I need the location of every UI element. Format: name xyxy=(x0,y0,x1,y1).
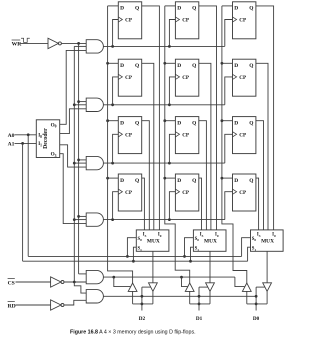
svg-text:I0: I0 xyxy=(158,232,162,237)
junction word line row 3 col 1 riser xyxy=(111,162,114,165)
svg-text:D: D xyxy=(234,178,238,184)
junction WR' to AND row 2 xyxy=(77,100,80,103)
junction word line row 4 col 1 riser xyxy=(111,218,114,221)
caption Figure 16.8 xyxy=(70,330,196,336)
wire WR' stub AND row 4 xyxy=(79,215,87,217)
wire D input stub row 2 col 3 xyxy=(222,62,233,64)
svg-text:CP: CP xyxy=(182,132,190,138)
svg-text:I0: I0 xyxy=(215,232,219,237)
input label RD (active low) with overline xyxy=(8,302,16,310)
wire MUX2 S1 from S1 rail xyxy=(191,247,194,261)
wire D2 data line xyxy=(133,303,153,305)
junction S0 rail MUX2 xyxy=(183,255,186,258)
junction word line row 3 col 2 riser xyxy=(168,162,171,165)
svg-text:CP: CP xyxy=(182,75,190,81)
junction S0 rail MUX1 xyxy=(126,255,129,258)
svg-text:CS: CS xyxy=(8,280,15,286)
AND gate G5 (write enable = WR'·CS') xyxy=(86,270,103,283)
wire CS to inverter xyxy=(16,281,51,283)
D flip-flop U10 row 4 col 1 (D, Q, CP pins) xyxy=(118,174,142,211)
wire WR' stub AND row 2 xyxy=(79,101,87,103)
wire CS' stub AND row 4 xyxy=(74,219,86,221)
junction write enable tap D1 xyxy=(180,276,183,279)
wire MUX1 S1 from S1 rail xyxy=(133,247,136,261)
wire D0 data line xyxy=(247,303,267,305)
junction bit line col 2 row 4 xyxy=(163,177,166,180)
tri-state read buffer B4 (output D2) xyxy=(149,283,158,292)
junction D1 data node xyxy=(198,303,201,306)
wire write enable to buffer B1 xyxy=(114,277,131,287)
wire CP riser row 3 col 3 xyxy=(225,134,233,163)
wire D input stub row 3 col 3 xyxy=(222,120,233,122)
svg-text:I3: I3 xyxy=(257,232,261,237)
wire Q output row 3 col 1 to MUX I2 xyxy=(142,121,150,230)
svg-text:Q: Q xyxy=(249,120,253,126)
wire A0 vertical to S0 rail xyxy=(27,135,29,257)
wire MUX3 S1 from S1 rail xyxy=(248,247,251,261)
wire decoder O2 to AND row 3 xyxy=(60,145,86,167)
wire read buffer B5 output drop xyxy=(209,291,211,304)
wire CP riser row 4 col 1 xyxy=(113,192,119,220)
svg-text:I3: I3 xyxy=(200,232,204,237)
wire CS' stub AND row 2 xyxy=(74,104,86,106)
svg-text:D0: D0 xyxy=(253,316,260,322)
svg-text:I0: I0 xyxy=(272,232,276,237)
wire D1 data line xyxy=(190,303,210,305)
junction read enable tap D0 xyxy=(255,295,258,298)
D flip-flop U5 row 2 col 2 (D, Q, CP pins) xyxy=(175,59,199,96)
junction S1 rail MUX1 xyxy=(132,260,135,263)
svg-text:Q: Q xyxy=(135,178,139,184)
wire read enable to buffer B5 xyxy=(199,286,208,288)
inverter U4 on RD line xyxy=(51,300,64,310)
wire D input stub row 3 col 1 xyxy=(108,120,119,122)
svg-text:CP: CP xyxy=(239,18,247,24)
wire decoder O0 to AND row 1 xyxy=(60,50,86,124)
D flip-flop U3 row 1 col 3 (D, Q, CP pins) xyxy=(232,2,256,39)
svg-text:D: D xyxy=(234,63,238,69)
svg-text:D: D xyxy=(177,6,181,12)
junction bit line col 2 row 3 xyxy=(163,119,166,122)
D flip-flop U6 row 2 col 3 (D, Q, CP pins) xyxy=(232,59,256,96)
svg-text:CP: CP xyxy=(239,132,247,138)
D flip-flop U7 row 3 col 1 (D, Q, CP pins) xyxy=(118,117,142,154)
svg-text:RD: RD xyxy=(8,303,16,309)
svg-text:Q: Q xyxy=(249,6,253,12)
wire bit line column 2 (D1) xyxy=(165,6,190,283)
wire CP riser row 4 col 2 xyxy=(169,192,175,220)
svg-text:CP: CP xyxy=(125,18,133,24)
wire D input stub row 4 col 2 xyxy=(165,177,176,179)
svg-text:I0: I0 xyxy=(38,134,42,139)
AND gate G3 (word line row 3) xyxy=(86,156,103,169)
D flip-flop U11 row 4 col 2 (D, Q, CP pins) xyxy=(175,174,199,211)
wire CP riser row 1 col 1 xyxy=(113,20,119,47)
svg-text:S0: S0 xyxy=(138,237,143,242)
inverter U3 on CS line xyxy=(51,277,64,287)
wire MUX1 output to tri-state buffer xyxy=(152,251,154,282)
multiplexer MUX2 (4-to-1) xyxy=(193,230,226,252)
AND gate G1 (word line row 1) xyxy=(86,40,103,53)
wire WR' vertical bus xyxy=(79,43,87,274)
wire A0 to decoder I0 xyxy=(15,134,37,136)
junction read enable tap D1 xyxy=(198,295,201,298)
svg-text:D: D xyxy=(120,6,124,12)
svg-text:S1: S1 xyxy=(195,247,200,252)
wire write buffer B1 input drop xyxy=(132,291,134,304)
svg-text:Q: Q xyxy=(192,178,196,184)
svg-text:Q: Q xyxy=(192,63,196,69)
wire CS' stub AND row 3 xyxy=(74,162,86,164)
svg-text:A0: A0 xyxy=(8,133,15,139)
svg-text:CP: CP xyxy=(239,75,247,81)
wire S0 select rail xyxy=(28,255,241,257)
svg-text:D: D xyxy=(177,178,181,184)
junction CS' to AND row 3 xyxy=(73,162,76,165)
inverter U1 on WR line xyxy=(48,38,61,48)
junction CS' branch xyxy=(73,281,76,284)
input label A0 xyxy=(8,133,15,139)
wire Q output row 4 col 3 to MUX I3 xyxy=(256,178,259,230)
svg-text:Q: Q xyxy=(192,6,196,12)
AND gate G6 (read enable = CS'·RD') xyxy=(86,290,103,303)
wire write enable rail xyxy=(103,276,235,278)
wire MUX3 S0 from S0 rail xyxy=(242,238,251,257)
junction D2 data node xyxy=(141,303,144,306)
svg-text:D: D xyxy=(177,63,181,69)
junction CS' to AND row 2 xyxy=(73,103,76,106)
svg-text:CP: CP xyxy=(125,75,133,81)
tri-state write buffer B3 (input D0) xyxy=(242,283,251,291)
wire D0 pad vertical xyxy=(255,287,257,310)
wire write enable to buffer B2 xyxy=(182,277,188,287)
wire bit line column 3 (D0) xyxy=(222,6,247,283)
wire D input stub row 1 col 3 xyxy=(222,5,233,7)
tri-state read buffer B5 (output D1) xyxy=(206,283,215,292)
decoder U2 (2-to-4) xyxy=(36,120,59,158)
multiplexer MUX1 (4-to-1) xyxy=(136,230,169,252)
wire read enable rail xyxy=(103,295,256,297)
junction CS' to AND row 4 xyxy=(73,218,76,221)
svg-text:Q: Q xyxy=(135,120,139,126)
svg-text:CP: CP xyxy=(182,18,190,24)
wire Q output row 3 col 2 to MUX I2 xyxy=(199,121,207,230)
wire S1 select rail xyxy=(23,260,248,262)
wire CP riser row 1 col 2 xyxy=(169,20,175,47)
wire CS' to AND gates xyxy=(64,281,86,283)
junction WR' to AND row 3 xyxy=(77,159,80,162)
svg-text:Q: Q xyxy=(249,63,253,69)
svg-text:S1: S1 xyxy=(252,247,257,252)
wire MUX3 output to tri-state buffer xyxy=(266,251,268,282)
output label D0 xyxy=(253,316,260,322)
output label D2 xyxy=(139,316,146,322)
svg-text:I3: I3 xyxy=(143,232,147,237)
tri-state read buffer B6 (output D0) xyxy=(263,283,272,292)
svg-text:Q: Q xyxy=(249,178,253,184)
D flip-flop U2 row 1 col 2 (D, Q, CP pins) xyxy=(175,2,199,39)
svg-text:MUX: MUX xyxy=(204,239,217,245)
wire write enable to buffer B3 xyxy=(235,277,245,287)
input label CS (active low) with overline xyxy=(8,279,15,287)
wire Q output row 1 col 1 to MUX I0 xyxy=(142,6,160,230)
wire Q output row 1 col 2 to MUX I0 xyxy=(199,6,217,230)
junction WR' branch xyxy=(77,42,80,45)
svg-text:S1: S1 xyxy=(138,247,143,252)
svg-text:MUX: MUX xyxy=(147,239,160,245)
svg-text:WR: WR xyxy=(12,42,23,48)
svg-text:Figure 16.8 A 4 × 3 memory des: Figure 16.8 A 4 × 3 memory design using … xyxy=(70,330,196,336)
wire read enable to buffer B6 xyxy=(256,286,265,288)
wire CS' staircase to read AND gate xyxy=(74,282,86,293)
wire CP riser row 1 col 3 xyxy=(225,20,233,47)
svg-text:A1: A1 xyxy=(8,142,15,148)
junction bit line col 2 row 2 xyxy=(163,62,166,65)
output label D1 xyxy=(196,316,203,322)
wire D2 pad vertical xyxy=(141,287,143,310)
wire D input stub row 2 col 2 xyxy=(165,62,176,64)
wire WR label to inverter xyxy=(20,42,48,44)
wire D input stub row 4 col 3 xyxy=(222,177,233,179)
svg-text:Q: Q xyxy=(135,63,139,69)
junction bit line col 3 row 4 xyxy=(221,177,224,180)
wire word line row 1 xyxy=(103,45,224,47)
wire WR' stub AND row 3 xyxy=(79,159,87,161)
svg-text:CP: CP xyxy=(182,190,190,196)
junction bit line col 3 row 3 xyxy=(221,119,224,122)
wire CP riser row 2 col 1 xyxy=(113,77,119,105)
wire MUX1 S0 from S0 rail xyxy=(127,238,136,257)
wire decoder O1 to AND row 2 xyxy=(60,109,86,134)
wire MUX2 output to tri-state buffer xyxy=(209,251,211,282)
wire decoder O3 to AND row 4 xyxy=(60,154,86,224)
wire Q output row 1 col 3 to MUX I0 xyxy=(256,6,274,230)
svg-text:D: D xyxy=(120,178,124,184)
D flip-flop U9 row 3 col 3 (D, Q, CP pins) xyxy=(232,117,256,154)
svg-text:CP: CP xyxy=(125,190,133,196)
multiplexer MUX3 (4-to-1) xyxy=(251,230,284,252)
wire CP riser row 3 col 2 xyxy=(169,134,175,163)
wire read buffer B4 output drop xyxy=(152,291,154,304)
wire CP riser row 3 col 1 xyxy=(113,134,119,163)
svg-text:CP: CP xyxy=(239,190,247,196)
wire D input stub row 3 col 2 xyxy=(165,120,176,122)
svg-text:D: D xyxy=(234,6,238,12)
wire CP riser row 2 col 3 xyxy=(225,77,233,105)
wire D input stub row 1 col 1 xyxy=(108,5,119,7)
wire word line row 2 xyxy=(103,104,224,106)
svg-text:D: D xyxy=(234,120,238,126)
wire word line row 4 xyxy=(103,219,224,221)
junction A1 select branch xyxy=(21,142,24,145)
tri-state write buffer B2 (input D1) xyxy=(185,283,194,291)
AND gate G4 (word line row 4) xyxy=(86,213,103,226)
wire Q output row 2 col 3 to MUX I1 xyxy=(256,63,268,230)
junction word line row 1 col 1 riser xyxy=(111,45,114,48)
svg-text:S0: S0 xyxy=(195,237,200,242)
input label WR (active low) with overline xyxy=(12,40,23,48)
junction WR' to AND row 4 xyxy=(77,215,80,218)
input label A1 xyxy=(8,142,15,148)
wire Q output row 3 col 3 to MUX I2 xyxy=(256,121,264,230)
wire Q output row 4 col 1 to MUX I3 xyxy=(142,178,145,230)
svg-text:I1: I1 xyxy=(38,142,42,147)
junction word line row 1 col 2 riser xyxy=(168,45,171,48)
wire write buffer B3 input drop xyxy=(246,291,248,304)
wire D input stub row 4 col 1 xyxy=(108,177,119,179)
wire D input stub row 2 col 1 xyxy=(108,62,119,64)
svg-text:Q: Q xyxy=(135,6,139,12)
svg-text:MUX: MUX xyxy=(261,239,274,245)
D flip-flop U12 row 4 col 3 (D, Q, CP pins) xyxy=(232,174,256,211)
svg-text:Decoder: Decoder xyxy=(43,128,49,149)
wire CP riser row 4 col 3 xyxy=(225,192,233,220)
wire inverter output to AND row 1 top input xyxy=(61,42,86,44)
svg-text:Q: Q xyxy=(192,120,196,126)
svg-text:D2: D2 xyxy=(139,316,146,322)
svg-text:D: D xyxy=(120,63,124,69)
junction bit line col 1 row 3 xyxy=(106,119,109,122)
D flip-flop U8 row 3 col 2 (D, Q, CP pins) xyxy=(175,117,199,154)
wire read buffer B6 output drop xyxy=(266,291,268,304)
junction bit line col 3 row 2 xyxy=(221,62,224,65)
junction write enable tap D2 xyxy=(112,276,115,279)
junction S1 rail MUX2 xyxy=(189,260,192,263)
wire D1 pad vertical xyxy=(198,287,200,310)
junction word line row 2 col 2 riser xyxy=(168,103,171,106)
D flip-flop U1 row 1 col 1 (D, Q, CP pins) xyxy=(118,2,142,39)
negative pulse waveform symbol on WR line xyxy=(21,38,30,42)
wire Q output row 2 col 1 to MUX I1 xyxy=(142,63,154,230)
wire A1 to decoder I1 xyxy=(15,142,37,144)
junction word line row 4 col 2 riser xyxy=(168,218,171,221)
wire word line row 3 xyxy=(103,162,224,164)
svg-text:D: D xyxy=(120,120,124,126)
svg-text:D1: D1 xyxy=(196,316,203,322)
D flip-flop U4 row 2 col 1 (D, Q, CP pins) xyxy=(118,59,142,96)
wire RD' to read AND gate xyxy=(64,300,86,305)
AND gate G2 (word line row 2) xyxy=(86,98,103,111)
junction word line row 2 col 1 riser xyxy=(111,103,114,106)
wire bit line column 1 (D2) xyxy=(108,6,133,283)
junction bit line col 1 row 2 xyxy=(106,62,109,65)
wire D input stub row 1 col 2 xyxy=(165,5,176,7)
svg-text:S0: S0 xyxy=(252,237,257,242)
wire write buffer B2 input drop xyxy=(189,291,191,304)
wire CS' vertical bus xyxy=(74,46,86,282)
tri-state write buffer B1 (input D2) xyxy=(128,283,137,291)
wire Q output row 2 col 2 to MUX I1 xyxy=(199,63,211,230)
svg-text:CP: CP xyxy=(125,132,133,138)
junction read enable tap D2 xyxy=(141,295,144,298)
junction D0 data node xyxy=(255,303,258,306)
wire Q output row 4 col 2 to MUX I3 xyxy=(199,178,202,230)
wire MUX2 S0 from S0 rail xyxy=(185,238,194,257)
wire CP riser row 2 col 2 xyxy=(169,77,175,105)
junction bit line col 1 row 4 xyxy=(106,177,109,180)
junction A0 select branch xyxy=(27,133,30,136)
wire RD to inverter xyxy=(16,304,51,306)
svg-text:D: D xyxy=(177,120,181,126)
wire A1 vertical to S1 rail xyxy=(22,143,24,261)
wire read enable to buffer B4 xyxy=(142,286,151,288)
